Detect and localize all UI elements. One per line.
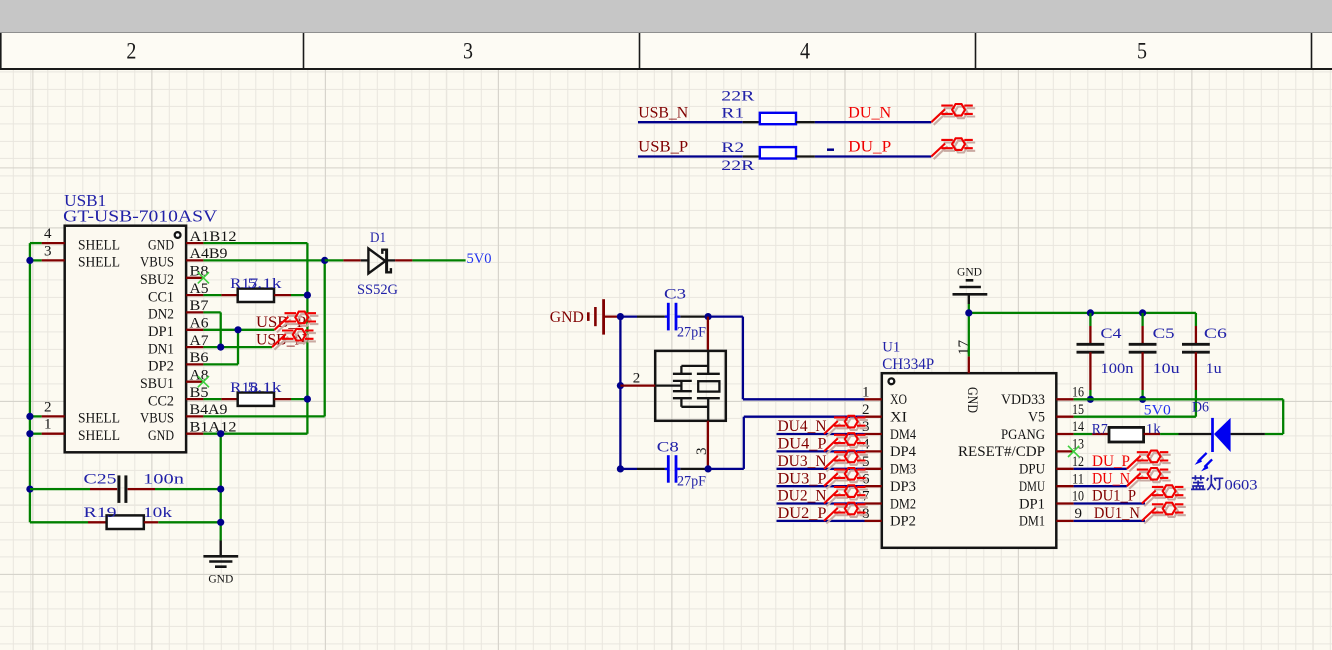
net label DU_P <box>848 139 891 156</box>
wire R18 to GND vertical <box>274 398 307 400</box>
U1 pin 11 DMU <box>1019 471 1084 495</box>
USB1 pin B4A9 VBUS <box>140 402 228 426</box>
svg-text:GND: GND <box>957 267 982 279</box>
power port GND above U1 <box>953 267 988 305</box>
svg-text:DP2: DP2 <box>890 514 916 530</box>
svg-text:2: 2 <box>126 39 136 64</box>
junction C4 VDD33 <box>1087 396 1094 403</box>
svg-text:SS52G: SS52G <box>357 282 398 298</box>
svg-text:GND: GND <box>964 387 980 413</box>
capacitor C8 27pF <box>657 440 706 490</box>
svg-text:100n: 100n <box>143 472 185 488</box>
USB1 pin 2 SHELL <box>42 399 120 426</box>
differential pair directive DU4_P <box>824 433 868 454</box>
svg-text:16: 16 <box>1072 385 1084 401</box>
svg-text:SHELL: SHELL <box>78 237 120 253</box>
svg-text:4: 4 <box>800 39 810 64</box>
net label DU1_N <box>1094 505 1140 522</box>
svg-text:PGANG: PGANG <box>1001 427 1045 443</box>
net label USB_P <box>638 139 688 156</box>
svg-text:CC1: CC1 <box>148 289 174 305</box>
junction DP1 <box>234 326 241 333</box>
USB1 pin A4B9 VBUS <box>140 246 228 270</box>
svg-text:GND: GND <box>208 574 233 586</box>
U1 pin 15 V5 <box>1028 402 1084 426</box>
wire left to R19 <box>30 521 107 523</box>
svg-text:1: 1 <box>44 417 52 433</box>
junction GND rail C4 <box>1087 309 1094 316</box>
USB1 pin B7 DN2 <box>148 298 209 322</box>
svg-text:VDD33: VDD33 <box>1001 392 1045 408</box>
wire crystal left vertical <box>619 317 621 469</box>
USB1 pin A8 SBU1 <box>140 368 209 392</box>
svg-text:5: 5 <box>862 454 870 470</box>
resistor R17 5.1k <box>230 276 282 302</box>
U1 pin 5 DM3 <box>862 454 916 478</box>
wire VBUS A4B9 to B4A9 vertical <box>203 260 324 416</box>
svg-text:XI: XI <box>890 410 907 426</box>
net label DU_N <box>1092 470 1130 487</box>
U1 pin 7 DM2 <box>862 489 916 513</box>
svg-text:U1: U1 <box>882 339 900 355</box>
wire U1 to DU1_P <box>1074 502 1145 504</box>
power label 5V0 <box>467 251 492 267</box>
junction SHELL pin1 <box>26 430 33 437</box>
svg-text:DU4_N: DU4_N <box>778 418 827 435</box>
junction R18 GND <box>304 396 311 403</box>
svg-text:C3: C3 <box>664 286 686 302</box>
svg-text:V5: V5 <box>1028 410 1045 426</box>
svg-text:C5: C5 <box>1153 326 1175 342</box>
junction GND C8 <box>617 465 624 472</box>
svg-text:9: 9 <box>1075 506 1083 522</box>
wire GND vertical below USB1 <box>220 434 222 541</box>
net label DU3_N <box>778 453 827 470</box>
svg-text:14: 14 <box>1072 419 1084 435</box>
svg-text:1u: 1u <box>1206 361 1223 377</box>
wire CC2 to R18 <box>203 398 237 400</box>
svg-text:DU2_P: DU2_P <box>778 505 827 522</box>
svg-text:3: 3 <box>694 448 710 456</box>
power port GND left <box>550 299 621 334</box>
U1 pin 4 DP4 <box>862 437 916 461</box>
svg-text:VBUS: VBUS <box>140 411 174 427</box>
resistor R1 22R <box>721 89 796 125</box>
net label DU_P <box>1092 453 1130 470</box>
svg-text:DU_N: DU_N <box>848 104 891 121</box>
svg-text:DU3_N: DU3_N <box>778 453 827 470</box>
wire crystal pin3 node to U1 XI <box>708 417 864 469</box>
junction GND rail C5 <box>1139 309 1146 316</box>
junction SHELL to C25 <box>26 486 33 493</box>
wire to C3 <box>620 315 665 317</box>
USB1 pin 1 SHELL <box>42 417 120 444</box>
differential pair directive DU1_N <box>1142 503 1186 524</box>
wire D1 to 5V0 <box>387 259 466 261</box>
capacitor C3 27pF <box>664 286 706 340</box>
svg-text:22R: 22R <box>721 158 754 174</box>
no-ERC marker pin A8 <box>198 376 209 387</box>
svg-text:DU_P: DU_P <box>848 139 891 156</box>
wire D6 to VDD33 loop <box>1231 433 1265 435</box>
svg-text:C6: C6 <box>1204 326 1228 342</box>
svg-text:R19: R19 <box>84 505 117 521</box>
wire C25 to GND vertical <box>128 488 221 490</box>
differential pair directive DU3_P <box>824 468 868 489</box>
U1 pin 2 XI <box>862 402 907 426</box>
net label DU3_P <box>778 470 827 487</box>
USB1 pin A6 DP1 <box>148 316 209 340</box>
differential pair directive DU2_P <box>824 503 868 524</box>
capacitor C6 1u <box>1182 313 1228 417</box>
svg-text:22R: 22R <box>721 89 754 105</box>
svg-text:SHELL: SHELL <box>78 255 120 271</box>
svg-text:CH334P: CH334P <box>882 356 934 373</box>
wire C3 to crystal pin1 <box>680 315 708 317</box>
U1 pin 3 DM4 <box>862 419 916 443</box>
svg-text:A8: A8 <box>190 368 209 384</box>
svg-text:DP3: DP3 <box>890 479 916 495</box>
svg-text:6: 6 <box>862 471 870 487</box>
differential pair directive DU3_N <box>824 451 868 472</box>
differential pair directive on USB_N <box>272 329 316 350</box>
wire GND net A1B12 to B1A12 vertical <box>203 243 307 434</box>
differential pair directive DU_P <box>1127 451 1171 472</box>
U1 pin 10 DP1 <box>1019 489 1084 513</box>
capacitor C5 10u <box>1129 313 1181 399</box>
net label DU4_P <box>778 436 827 453</box>
wire DU4_P to U1 <box>777 450 865 452</box>
svg-text:DU_P: DU_P <box>1092 453 1130 470</box>
wire U1 to DU_P <box>1074 468 1127 470</box>
svg-text:R2: R2 <box>721 140 744 156</box>
svg-text:SBU1: SBU1 <box>140 376 174 392</box>
USB1 pin A7 DN1 <box>148 333 209 357</box>
junction GND C3 <box>617 313 624 320</box>
U1 pin 6 DP3 <box>862 471 916 495</box>
differential pair directive DU_N <box>1127 468 1171 489</box>
wire left to C25 <box>30 488 117 490</box>
LED D6 blue <box>1192 399 1231 471</box>
wire R2 lead right <box>796 155 815 157</box>
junction SHELL pin3 <box>26 257 33 264</box>
svg-text:DM2: DM2 <box>890 496 916 512</box>
label blue LED 0603 <box>1191 475 1258 494</box>
svg-text:2: 2 <box>862 402 870 418</box>
svg-text:4: 4 <box>862 437 870 453</box>
svg-text:DU4_P: DU4_P <box>778 436 827 453</box>
svg-text:C8: C8 <box>657 440 679 456</box>
resistor R19 10k <box>84 505 173 529</box>
svg-text:27pF: 27pF <box>677 325 706 341</box>
junction VBUS at D1 <box>321 257 328 264</box>
svg-text:XO: XO <box>890 392 907 408</box>
svg-text:DU2_N: DU2_N <box>778 488 827 505</box>
svg-text:SHELL: SHELL <box>78 411 120 427</box>
svg-text:3: 3 <box>463 39 473 64</box>
IC U1 designator <box>882 339 900 355</box>
wire DU3_P to U1 <box>777 485 865 487</box>
svg-text:GND: GND <box>148 237 174 253</box>
U1 pin 12 DPU <box>1019 454 1084 478</box>
wire R1 to DU_N port <box>815 121 931 123</box>
wire DU3_N to U1 <box>777 468 865 470</box>
wire SHELL bus left vertical <box>30 243 42 522</box>
wire R1 lead right <box>796 121 815 123</box>
U1 pin 9 DM1 <box>1019 506 1082 530</box>
wire GND port to pin17 and rail <box>969 304 1196 356</box>
differential pair directive DU1_P <box>1142 485 1186 506</box>
svg-text:DN2: DN2 <box>148 307 174 323</box>
svg-text:CC2: CC2 <box>148 393 174 409</box>
wire C8 to XI node <box>680 468 708 470</box>
U1 pin 1 XO <box>862 385 907 409</box>
power label 5V0 on V5 <box>1144 403 1171 419</box>
svg-text:DPU: DPU <box>1019 462 1045 478</box>
svg-text:5V0: 5V0 <box>1144 403 1171 419</box>
svg-text:5.1k: 5.1k <box>248 276 283 292</box>
USB1 pin 3 SHELL <box>42 243 120 270</box>
wire DN2 to DN1 (USB_N) <box>203 312 272 347</box>
IC U1 body <box>882 373 1057 548</box>
svg-text:GND: GND <box>148 428 174 444</box>
svg-text:DM4: DM4 <box>890 427 916 443</box>
U1 pin 13 RESET#/CDP <box>958 437 1084 461</box>
svg-text:VBUS: VBUS <box>140 255 174 271</box>
svg-text:5.1k: 5.1k <box>248 380 283 396</box>
wire R7 to D6 <box>1144 433 1213 435</box>
diode D1 SS52G schottky <box>357 230 398 298</box>
junction C5 VDD33 <box>1139 396 1146 403</box>
net label USB_N <box>638 104 688 121</box>
no-ERC marker pin B8 <box>198 272 209 283</box>
net label DU4_N <box>778 418 827 435</box>
svg-text:8: 8 <box>862 506 870 522</box>
svg-text:DP1: DP1 <box>148 324 174 340</box>
svg-text:DU3_P: DU3_P <box>778 470 827 487</box>
crystal X1 pin1 stub <box>707 317 709 351</box>
USB1 pin 4 SHELL <box>42 226 120 253</box>
net label USB_N <box>256 332 306 349</box>
svg-text:5V0: 5V0 <box>467 251 492 267</box>
svg-text:C25: C25 <box>84 472 117 488</box>
svg-text:DP2: DP2 <box>148 359 174 375</box>
svg-text:3: 3 <box>862 419 870 435</box>
USB1 pin B5 CC2 <box>148 385 209 409</box>
svg-text:RESET#/CDP: RESET#/CDP <box>958 444 1045 460</box>
svg-text:DM1: DM1 <box>1019 514 1045 530</box>
wire CC1 to R17 <box>203 294 237 296</box>
net label DU_N <box>848 104 891 121</box>
crystal pin 2 <box>620 370 655 386</box>
wire VDD33 rail pin16 <box>1074 399 1284 434</box>
svg-text:SBU2: SBU2 <box>140 272 174 288</box>
junction SHELL pin2 <box>26 413 33 420</box>
svg-text:D6: D6 <box>1192 399 1209 415</box>
IC U1 part CH334P <box>882 356 934 373</box>
wire PGANG pin14 to R7 <box>1074 433 1109 435</box>
wire to C8 <box>620 468 665 470</box>
svg-text:USB_N: USB_N <box>638 104 688 121</box>
svg-text:USB_P: USB_P <box>638 139 688 156</box>
svg-text:2: 2 <box>44 399 52 415</box>
net label DU1_P <box>1092 488 1136 505</box>
USB1 pin A5 CC1 <box>148 281 209 305</box>
svg-text:GND: GND <box>550 309 584 326</box>
junction R19 right <box>217 519 224 526</box>
svg-text:3: 3 <box>44 243 52 259</box>
svg-text:DU_N: DU_N <box>1092 470 1130 487</box>
svg-text:1: 1 <box>862 385 870 401</box>
resistor R18 5.1k <box>230 380 282 406</box>
junction crystal pin2 <box>617 382 624 389</box>
differential pair directive DU4_N <box>824 416 868 437</box>
resistor R2 22R <box>721 140 796 174</box>
svg-text:11: 11 <box>1072 471 1084 487</box>
U1 pin 17 GND top <box>956 340 980 414</box>
wire R1 lead left <box>743 121 760 123</box>
svg-text:15: 15 <box>1072 402 1084 418</box>
svg-text:DP4: DP4 <box>890 444 916 460</box>
no-ERC marker pin 13 <box>1068 446 1079 457</box>
capacitor C4 100n <box>1077 313 1135 399</box>
svg-text:R1: R1 <box>721 106 744 122</box>
svg-text:DP1: DP1 <box>1019 496 1045 512</box>
differential pair directive DU2_N <box>824 485 868 506</box>
wire DP1 to DP2 (USB_P) <box>203 330 274 365</box>
wire crystal pin1 node to U1 XO <box>708 317 864 400</box>
wire USB_N to R1 <box>638 121 743 123</box>
svg-text:SHELL: SHELL <box>78 428 120 444</box>
svg-text:7: 7 <box>862 489 870 505</box>
junction crystal pin3 <box>705 465 712 472</box>
junction GND rail stem <box>965 309 972 316</box>
wire U1 to DU1_N <box>1074 520 1145 522</box>
stray dash mark <box>827 148 834 151</box>
svg-text:0603: 0603 <box>1225 477 1258 493</box>
connector USB1 designator <box>64 191 106 210</box>
wire R17 to GND vertical <box>274 294 307 296</box>
svg-text:DM3: DM3 <box>890 462 916 478</box>
junction DN1 <box>217 344 224 351</box>
U1 pin 14 PGANG <box>1001 419 1084 443</box>
junction crystal pin1 <box>705 313 712 320</box>
connector USB1 body <box>65 226 186 453</box>
junction R17 GND <box>304 292 311 299</box>
crystal X1 body <box>655 351 726 421</box>
wire DU2_N to U1 <box>777 502 865 504</box>
U1 pin 16 VDD33 <box>1001 385 1084 409</box>
svg-text:D1: D1 <box>370 230 386 246</box>
ruler tick marks and numbers <box>1 33 1312 68</box>
svg-text:DMU: DMU <box>1019 479 1045 495</box>
capacitor C25 100n <box>84 472 185 503</box>
net label DU2_P <box>778 505 827 522</box>
wire U1 to DU_N <box>1074 485 1127 487</box>
USB1 pin B6 DP2 <box>148 350 209 374</box>
junction B1A12 <box>217 430 224 437</box>
svg-text:B8: B8 <box>190 264 209 280</box>
wire R2 to DU_P port <box>815 155 931 157</box>
USB1 pin B1A12 GND <box>148 420 237 444</box>
svg-text:4: 4 <box>44 226 52 242</box>
svg-text:27pF: 27pF <box>677 474 706 490</box>
connector USB1 comment GT-USB-7010ASV <box>63 207 217 226</box>
wire USB_P to R2 <box>638 155 743 157</box>
svg-text:DU1_N: DU1_N <box>1094 505 1140 522</box>
wire V5 pin15 to C6 <box>1074 416 1196 418</box>
resistor R7 1k <box>1092 421 1162 442</box>
crystal pin 3 <box>694 421 710 469</box>
USB1 pin A1B12 GND <box>148 229 237 253</box>
junction C25 right <box>217 486 224 493</box>
svg-text:DN1: DN1 <box>148 341 174 357</box>
svg-text:5: 5 <box>1137 39 1147 64</box>
svg-text:C4: C4 <box>1101 326 1123 342</box>
wire VBUS to D1 <box>325 259 369 261</box>
svg-text:10u: 10u <box>1153 361 1181 377</box>
U1 pin 8 DP2 <box>862 506 916 530</box>
svg-text:100n: 100n <box>1101 361 1135 377</box>
svg-text:10k: 10k <box>143 505 173 521</box>
svg-text:10: 10 <box>1072 489 1084 505</box>
svg-text:GT-USB-7010ASV: GT-USB-7010ASV <box>63 207 217 226</box>
ground symbol GND below USB1 <box>203 541 238 586</box>
wire DU2_P to U1 <box>777 520 865 522</box>
differential pair directive on USB_P <box>275 312 319 333</box>
net label DU2_N <box>778 488 827 505</box>
svg-text:R7: R7 <box>1092 421 1108 437</box>
wire DU4_N to U1 <box>777 433 865 435</box>
wire R19 to GND vertical <box>144 521 221 523</box>
net label USB_P <box>256 314 306 331</box>
differential pair directive on DU_P <box>931 138 975 159</box>
wire R2 lead left <box>743 155 760 157</box>
svg-text:DU1_P: DU1_P <box>1092 488 1136 505</box>
svg-text:2: 2 <box>633 370 641 386</box>
differential pair directive on DU_N <box>931 104 975 125</box>
USB1 pin B8 SBU2 <box>140 264 209 288</box>
